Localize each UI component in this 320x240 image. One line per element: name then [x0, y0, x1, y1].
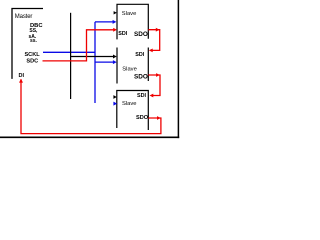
svg-text:SDO: SDO: [134, 74, 148, 81]
wire strobe black vertical: [70, 13, 72, 99]
svg-text:DI: DI: [19, 73, 25, 79]
arrow red up into master DI: [19, 79, 23, 83]
slave U2 box: [117, 4, 148, 39]
slave U3 box right edge: [147, 48, 149, 82]
arrow red mid U2 out: [156, 28, 160, 32]
svg-text:ss.: ss.: [30, 38, 38, 44]
slave U3 box left edge: [116, 48, 118, 84]
wire SDC red from master to U2: [43, 30, 114, 61]
svg-text:SDI: SDI: [135, 52, 144, 58]
arrow blue into U3: [113, 60, 117, 64]
wire SCKL blue vertical bus: [94, 22, 96, 103]
arrow black at U2: [114, 11, 117, 14]
svg-text:SDO: SDO: [134, 31, 148, 38]
wire SCKL blue horizontal from master: [43, 51, 95, 53]
arrow red mid U4 out: [157, 116, 161, 120]
svg-text:SDO: SDO: [136, 115, 149, 121]
wire red U4 SDO return to master DI: [21, 79, 161, 133]
svg-text:SDI: SDI: [118, 31, 127, 37]
svg-text:Slave: Slave: [122, 101, 137, 107]
arrow black into U3: [113, 55, 117, 59]
svg-text:Slave: Slave: [122, 67, 137, 73]
arrow red into U2 SDI: [113, 28, 117, 32]
arrow red into U3 SDI: [149, 49, 153, 53]
svg-text:SCKL: SCKL: [24, 52, 40, 58]
master U1 box: [12, 9, 43, 79]
wire strobe branch to slave U3: [71, 56, 114, 58]
svg-text:SDC: SDC: [26, 59, 38, 65]
svg-text:Master: Master: [15, 14, 33, 20]
svg-text:Slave: Slave: [122, 11, 137, 17]
arrow blue into U2: [113, 20, 117, 24]
wire red U3 SDO to U4 SDI: [148, 75, 160, 96]
wire SCKL branch to slave U3: [95, 61, 113, 63]
arrow red into U4 SDI: [150, 94, 154, 98]
wire red U2 SDO to U3 SDI: [148, 30, 159, 51]
wire SCKL branch to slave U2: [95, 21, 113, 23]
arrow red mid U3 out: [156, 73, 160, 77]
slave U4 box: [117, 91, 149, 131]
arrow blue at U4: [113, 102, 117, 106]
svg-text:SDI: SDI: [137, 93, 146, 99]
arrow black at U4: [113, 95, 116, 99]
